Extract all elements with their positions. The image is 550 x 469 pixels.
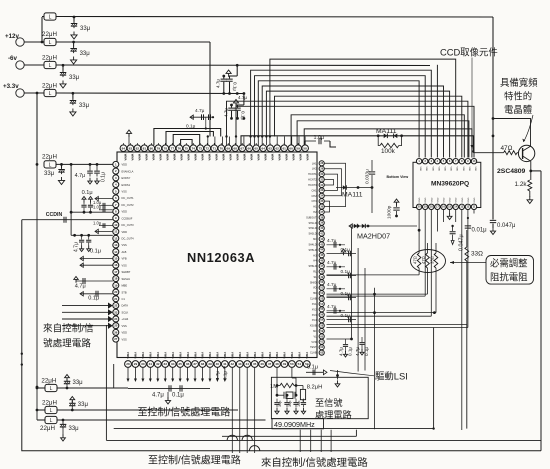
svg-text:WMA: WMA	[200, 154, 204, 161]
svg-text:WMA: WMA	[275, 352, 279, 359]
capacitor 4.7u 0.1u group left of +12v drop	[186, 108, 214, 130]
svg-text:49: 49	[283, 362, 287, 366]
IC U1 top pin row	[120, 145, 308, 152]
svg-text:CLAB: CLAB	[310, 352, 317, 355]
svg-text:VDD: VDD	[462, 167, 464, 172]
svg-text:WMA: WMA	[263, 154, 267, 161]
svg-text:SH2LD: SH2LD	[308, 227, 316, 230]
wire +12v node to top rail	[41, 17, 43, 42]
wire hop arcs	[227, 435, 260, 451]
wire loop over top pins 4	[181, 140, 193, 146]
svg-text:0.033μ: 0.033μ	[365, 169, 371, 184]
resistor 33ohm right	[465, 247, 483, 261]
bus wire row 4	[255, 76, 426, 158]
svg-text:0.1μ: 0.1μ	[348, 347, 353, 356]
wire collector	[492, 117, 531, 146]
svg-text:WMA: WMA	[249, 154, 253, 161]
svg-text:22μH: 22μH	[42, 55, 57, 62]
svg-text:WMA: WMA	[149, 352, 153, 359]
svg-text:73: 73	[199, 146, 203, 150]
svg-text:74: 74	[192, 146, 196, 150]
svg-text:WMA: WMA	[238, 352, 242, 359]
junction +12v rail cap	[72, 41, 75, 44]
svg-text:33μ: 33μ	[73, 380, 84, 386]
IC U2 bottom pin labels	[419, 197, 476, 202]
svg-text:83: 83	[129, 146, 133, 150]
label to signal circuit	[315, 397, 352, 420]
callout must adjust impedance	[450, 256, 534, 285]
capacitor 0.1u lower decoupling	[230, 104, 245, 121]
svg-text:VDD: VDD	[474, 167, 476, 172]
svg-text:至控制/信號處理電路: 至控制/信號處理電路	[148, 453, 241, 466]
svg-text:VDD: VDD	[122, 230, 128, 234]
transistor Q1 2SC4809	[518, 145, 534, 161]
bus wire row 13	[304, 129, 472, 158]
svg-text:VDD: VDD	[122, 163, 128, 167]
svg-text:WMA: WMA	[131, 154, 135, 161]
svg-text:WMA: WMA	[159, 154, 163, 161]
capacitor 0.01u	[465, 226, 487, 234]
svg-text:HCNT2: HCNT2	[308, 179, 317, 182]
svg-text:Bottom View: Bottom View	[387, 175, 409, 179]
svg-text:SH8D: SH8D	[310, 281, 317, 284]
svg-text:WMA: WMA	[163, 352, 167, 359]
ground U2 pin	[447, 213, 452, 220]
svg-text:4.7μ: 4.7μ	[327, 282, 337, 288]
svg-text:0.01μ: 0.01μ	[472, 228, 488, 234]
svg-text:22μH: 22μH	[40, 425, 55, 432]
svg-text:WMA: WMA	[207, 154, 211, 161]
inductor 22uH +12v	[42, 31, 210, 46]
svg-text:65: 65	[254, 146, 258, 150]
svg-text:4.7μ: 4.7μ	[355, 347, 360, 356]
bus wire row 3	[251, 70, 432, 157]
svg-text:+3.3v: +3.3v	[3, 83, 19, 90]
svg-text:64: 64	[261, 146, 265, 150]
svg-text:XV3: XV3	[312, 314, 317, 317]
bus rail MA111 row	[241, 136, 473, 153]
svg-text:81: 81	[143, 146, 147, 150]
svg-text:WMA: WMA	[152, 154, 156, 161]
svg-text:33μ: 33μ	[69, 426, 80, 432]
svg-text:WMA: WMA	[291, 154, 295, 161]
svg-text:22μH: 22μH	[42, 154, 57, 161]
svg-text:47: 47	[268, 362, 272, 366]
bus wire row 10	[236, 106, 474, 157]
svg-text:VDD: VDD	[122, 331, 128, 335]
wire crystal loop rail	[222, 430, 356, 437]
svg-text:HCNT1: HCNT1	[308, 173, 317, 176]
svg-text:0.1μ: 0.1μ	[90, 249, 101, 255]
svg-text:22μH: 22μH	[42, 83, 57, 90]
svg-text:59: 59	[296, 146, 300, 150]
ground top rail cap	[71, 32, 77, 39]
IC U2 bottom pin row	[416, 204, 476, 209]
svg-text:+CH4: +CH4	[122, 317, 129, 321]
svg-text:具備寬頻: 具備寬頻	[500, 77, 538, 88]
svg-text:47Ω: 47Ω	[413, 256, 418, 264]
svg-text:0.1μ: 0.1μ	[101, 172, 107, 182]
wires U2 bottom pins drop	[419, 210, 474, 431]
diode MA2HD07	[349, 224, 417, 241]
svg-text:10: 10	[114, 223, 118, 227]
svg-text:LH2: LH2	[312, 168, 317, 171]
svg-text:24: 24	[114, 317, 118, 321]
svg-text:2SC4809: 2SC4809	[497, 168, 526, 175]
svg-text:NC: NC	[313, 330, 317, 333]
capacitor 33u bottom 2	[69, 397, 88, 412]
svg-text:GND: GND	[462, 197, 464, 202]
svg-text:WMA: WMA	[214, 154, 218, 161]
svg-text:30p: 30p	[288, 401, 292, 407]
svg-text:WMA: WMA	[253, 352, 257, 359]
capacitor 4.7u 0.1u left cluster 2	[71, 234, 113, 255]
svg-text:SH4LD: SH4LD	[308, 243, 316, 246]
svg-text:WMA: WMA	[180, 154, 184, 161]
svg-text:VDD: VDD	[450, 167, 452, 172]
crystal X1	[277, 386, 296, 399]
junction +12v node	[41, 41, 44, 44]
bus wire row 1	[270, 59, 456, 157]
svg-text:WMA: WMA	[235, 154, 239, 161]
svg-text:WMA: WMA	[173, 154, 177, 161]
svg-text:27: 27	[114, 337, 118, 341]
svg-text:WMA: WMA	[194, 154, 198, 161]
svg-text:必需調整: 必需調整	[490, 258, 528, 269]
svg-text:4.7μ: 4.7μ	[74, 242, 80, 252]
svg-text:WMA: WMA	[221, 154, 225, 161]
svg-text:L: L	[49, 63, 52, 69]
capacitor 0.1u left pin cluster	[70, 190, 113, 214]
svg-text:WMA: WMA	[283, 352, 287, 359]
svg-text:至控制/信號處理電路: 至控制/信號處理電路	[138, 405, 231, 418]
svg-text:25: 25	[114, 324, 118, 328]
power input -6v	[8, 55, 44, 69]
svg-text:WMA: WMA	[138, 154, 142, 161]
svg-text:33μ: 33μ	[79, 103, 90, 109]
svg-text:80: 80	[150, 146, 154, 150]
wires control signals into left pins	[62, 303, 112, 328]
svg-text:79: 79	[157, 146, 161, 150]
svg-text:4.7μ: 4.7μ	[195, 108, 205, 114]
svg-text:VSS: VSS	[122, 243, 127, 247]
svg-text:16: 16	[114, 263, 118, 267]
inductor 22uH left mid	[36, 154, 113, 169]
svg-text:67: 67	[241, 146, 245, 150]
IC U1 left pin name labels	[122, 163, 135, 342]
svg-text:29: 29	[134, 362, 138, 366]
wire CCDIN trunk down to bottom border	[21, 220, 541, 451]
svg-text:34: 34	[171, 362, 175, 366]
svg-text:ALB: ALB	[122, 250, 127, 254]
svg-text:38: 38	[201, 362, 205, 366]
svg-text:來自控制/信: 來自控制/信	[43, 323, 94, 335]
svg-text:33Ω: 33Ω	[430, 256, 435, 264]
capacitor 1.0u rows	[93, 200, 113, 212]
svg-text:60: 60	[289, 146, 293, 150]
svg-text:DC_OUT2: DC_OUT2	[122, 203, 135, 207]
svg-text:GND: GND	[431, 197, 433, 202]
svg-text:VDD: VDD	[419, 167, 421, 172]
svg-text:1000p: 1000p	[387, 205, 393, 219]
svg-text:L: L	[50, 408, 53, 414]
svg-text:4.7μ: 4.7μ	[339, 347, 344, 356]
svg-text:33μ: 33μ	[69, 75, 80, 81]
inductor 22uH -6v	[42, 55, 430, 70]
capacitor 0.1u bottom right pin	[306, 365, 327, 376]
svg-text:4.7μ: 4.7μ	[224, 108, 229, 117]
svg-text:82: 82	[136, 146, 140, 150]
svg-text:WMA: WMA	[242, 154, 246, 161]
svg-text:0.1μ: 0.1μ	[233, 82, 238, 91]
svg-text:69: 69	[227, 146, 231, 150]
capacitor 4.7u left cluster 3	[74, 277, 113, 290]
junction +3.3v rail cap	[72, 92, 75, 95]
svg-text:12: 12	[114, 236, 118, 240]
svg-text:WMA: WMA	[298, 154, 302, 161]
wire +12v rail drop	[209, 42, 211, 137]
wire left pin row arrow 1	[95, 196, 113, 200]
svg-text:L: L	[49, 163, 52, 169]
svg-text:4.7μ: 4.7μ	[327, 238, 337, 244]
svg-text:處理電路: 處理電路	[315, 409, 352, 420]
IC U1 left pin column	[113, 161, 119, 342]
svg-text:32: 32	[156, 362, 160, 366]
svg-text:WMA: WMA	[166, 154, 170, 161]
capacitor 4.7u bottom pins labels rotated	[215, 366, 228, 380]
capacitor pairs right of U1	[327, 238, 357, 322]
svg-text:VDD: VDD	[425, 167, 427, 172]
svg-text:L: L	[49, 15, 52, 21]
svg-text:VDD: VDD	[444, 167, 446, 172]
svg-text:CCD取像元件: CCD取像元件	[440, 47, 498, 58]
svg-text:CH2: CH2	[311, 195, 317, 198]
svg-text:SUBOUT: SUBOUT	[306, 216, 317, 219]
svg-text:WMA: WMA	[298, 352, 302, 359]
svg-text:1.0μ: 1.0μ	[314, 135, 325, 141]
svg-text:31: 31	[149, 362, 153, 366]
label transistor annotation	[500, 77, 538, 142]
svg-text:100k: 100k	[381, 148, 396, 155]
inductor 8.2uH	[300, 385, 322, 402]
svg-text:76: 76	[178, 146, 182, 150]
svg-text:XV2: XV2	[312, 308, 317, 311]
svg-text:-6v: -6v	[8, 55, 18, 62]
svg-text:33Ω: 33Ω	[471, 251, 483, 258]
inductor 22uH bottom 1	[36, 378, 128, 393]
capacitor 0.047u right	[490, 220, 516, 234]
svg-text:33μ: 33μ	[80, 26, 91, 32]
svg-text:WMA: WMA	[186, 352, 190, 359]
bus wire row 7	[266, 91, 449, 157]
bus wire row 6	[262, 86, 443, 158]
capacitor 33u bottom 1	[64, 375, 83, 389]
svg-text:19: 19	[114, 283, 118, 287]
svg-text:14: 14	[114, 250, 118, 254]
svg-text:L: L	[49, 91, 52, 97]
svg-text:SHSLU: SHSLU	[122, 277, 131, 281]
resistor 47ohm oval 1	[413, 253, 421, 268]
ground stub right of bottom pins	[335, 370, 340, 387]
svg-text:4.7μ: 4.7μ	[215, 371, 220, 380]
power input +3.3v	[3, 83, 44, 97]
junction +3.3v node	[36, 92, 39, 95]
svg-text:MN39620PQ: MN39620PQ	[431, 181, 469, 188]
svg-text:WMA: WMA	[270, 154, 274, 161]
svg-text:DC_OUT3: DC_OUT3	[122, 223, 135, 227]
svg-text:33μ: 33μ	[44, 171, 55, 177]
svg-text:SH6LD: SH6LD	[308, 265, 316, 268]
svg-text:SH1LD: SH1LD	[308, 222, 316, 225]
svg-text:4.7μ: 4.7μ	[238, 95, 247, 100]
capacitor 33u -6v rail	[60, 65, 80, 81]
inductor 22uH bottom 2	[36, 399, 238, 414]
capacitor 0.033u	[365, 160, 376, 213]
svg-text:WMA: WMA	[305, 352, 309, 359]
wire bottom rails	[106, 325, 541, 440]
inductor 22uH +3.3v	[42, 83, 244, 98]
svg-text:0.047μ: 0.047μ	[497, 223, 516, 229]
svg-text:71: 71	[213, 146, 217, 150]
svg-text:VDD: VDD	[122, 210, 128, 214]
svg-text:WMA: WMA	[223, 352, 227, 359]
svg-text:特性的: 特性的	[504, 91, 532, 102]
svg-text:XSUB: XSUB	[310, 325, 317, 328]
svg-text:22: 22	[114, 304, 118, 308]
svg-text:41: 41	[223, 362, 227, 366]
resistor group oval	[411, 250, 446, 273]
svg-text:XV4: XV4	[312, 319, 317, 322]
wire +3.3v trunk lower	[36, 164, 39, 388]
wire loop over top pins 3	[173, 135, 200, 146]
svg-text:CCDIN: CCDIN	[46, 212, 63, 218]
diode pair MA111 top	[376, 128, 403, 138]
svg-text:66: 66	[247, 146, 251, 150]
svg-text:GND: GND	[450, 197, 452, 202]
capacitor 1.0u top right	[305, 135, 336, 147]
ground +12v cap	[71, 57, 77, 64]
svg-text:VD: VD	[313, 287, 317, 290]
svg-text:DC_OUT4: DC_OUT4	[122, 237, 135, 241]
capacitor 33u top rail	[71, 17, 91, 32]
svg-text:28: 28	[126, 362, 130, 366]
svg-text:33: 33	[164, 362, 168, 366]
svg-text:77: 77	[171, 146, 175, 150]
resistor 47ohm oval 2	[421, 253, 429, 268]
capacitor group below right pins 1	[339, 339, 353, 357]
svg-text:CLAB: CLAB	[310, 298, 317, 301]
ground +3.3v cap	[70, 109, 76, 116]
svg-text:電晶體: 電晶體	[504, 104, 532, 115]
svg-text:30: 30	[141, 362, 145, 366]
svg-text:來自控制/信號處理電路: 來自控制/信號處理電路	[261, 456, 368, 469]
wires oval resistor leads	[418, 229, 467, 325]
svg-text:37: 37	[193, 362, 197, 366]
label from control circuit left	[43, 323, 94, 350]
capacitor 33u left mid	[44, 163, 65, 185]
svg-text:C1: C1	[122, 297, 126, 301]
svg-text:15: 15	[114, 257, 118, 261]
IC U1 NN12063A body	[117, 152, 317, 358]
capacitor 0.047u mid rotated	[450, 225, 465, 251]
capacitor 4.7u rail decoupling	[216, 64, 239, 94]
svg-text:WMA: WMA	[277, 154, 281, 161]
svg-text:36: 36	[186, 362, 190, 366]
resistor 1M	[270, 383, 303, 390]
svg-text:40: 40	[216, 362, 220, 366]
svg-text:0.1μ: 0.1μ	[172, 393, 184, 399]
bus wire row 8	[275, 96, 462, 157]
svg-text:XV1: XV1	[312, 303, 317, 306]
svg-text:4.7μ: 4.7μ	[75, 284, 86, 290]
svg-text:1.2k: 1.2k	[515, 181, 528, 188]
bus wire row 9	[227, 101, 468, 157]
svg-text:WMA: WMA	[231, 352, 235, 359]
svg-text:84: 84	[122, 146, 126, 150]
wire loop over top pins 1	[154, 129, 221, 146]
svg-text:72: 72	[206, 146, 210, 150]
svg-text:號處理電路: 號處理電路	[43, 338, 91, 350]
svg-text:NC: NC	[313, 238, 317, 241]
svg-text:44: 44	[245, 362, 249, 366]
svg-text:13: 13	[114, 243, 118, 247]
svg-text:WMA: WMA	[245, 352, 249, 359]
capacitor 4.7u bottom	[128, 385, 210, 404]
svg-text:CCDBUF: CCDBUF	[122, 216, 133, 220]
svg-text:VDD: VDD	[437, 167, 439, 172]
capacitor 33u +3.3v rail	[70, 93, 90, 109]
svg-text:L: L	[50, 418, 53, 424]
capacitor 1.0u row 3	[93, 220, 113, 228]
svg-text:TEST: TEST	[310, 346, 317, 349]
svg-text:L: L	[50, 386, 53, 392]
svg-text:33μ: 33μ	[80, 51, 91, 57]
svg-text:23: 23	[114, 310, 118, 314]
junction top rail cap	[73, 16, 76, 19]
svg-text:阻抗電阻: 阻抗電阻	[490, 272, 528, 283]
wires bus drops to top pins	[208, 137, 305, 146]
svg-text:STB: STB	[122, 290, 127, 294]
svg-text:GND: GND	[425, 197, 427, 202]
wire top rail drop right	[492, 17, 495, 220]
svg-text:35: 35	[178, 362, 182, 366]
svg-text:WMA: WMA	[141, 352, 145, 359]
wire right edge loop	[540, 171, 542, 451]
label driver LSI	[330, 371, 408, 382]
svg-text:GND: GND	[437, 197, 439, 202]
wires U1 right pins to oval	[327, 275, 467, 325]
svg-text:SCLK: SCLK	[122, 310, 129, 314]
wire left pin row arrow 2	[95, 229, 113, 233]
svg-text:WMA: WMA	[216, 352, 220, 359]
svg-text:48: 48	[275, 362, 279, 366]
ground arrow above pin row	[126, 130, 131, 145]
label crystal frequency	[272, 419, 324, 429]
CCDIN input label	[22, 212, 113, 223]
svg-text:33μ: 33μ	[78, 402, 89, 408]
svg-text:MA2HD07: MA2HD07	[357, 232, 390, 241]
svg-text:78: 78	[164, 146, 168, 150]
svg-text:GND: GND	[474, 197, 476, 202]
IC U1 right pin column	[319, 161, 324, 355]
svg-text:39: 39	[208, 362, 212, 366]
svg-text:VSS: VSS	[122, 324, 127, 328]
crystal circuit box	[271, 377, 368, 418]
svg-text:VSS: VSS	[122, 189, 127, 193]
IC U1 bottom pin row	[125, 361, 311, 368]
svg-text:VDD: VDD	[456, 167, 458, 172]
svg-text:WMA: WMA	[193, 352, 197, 359]
